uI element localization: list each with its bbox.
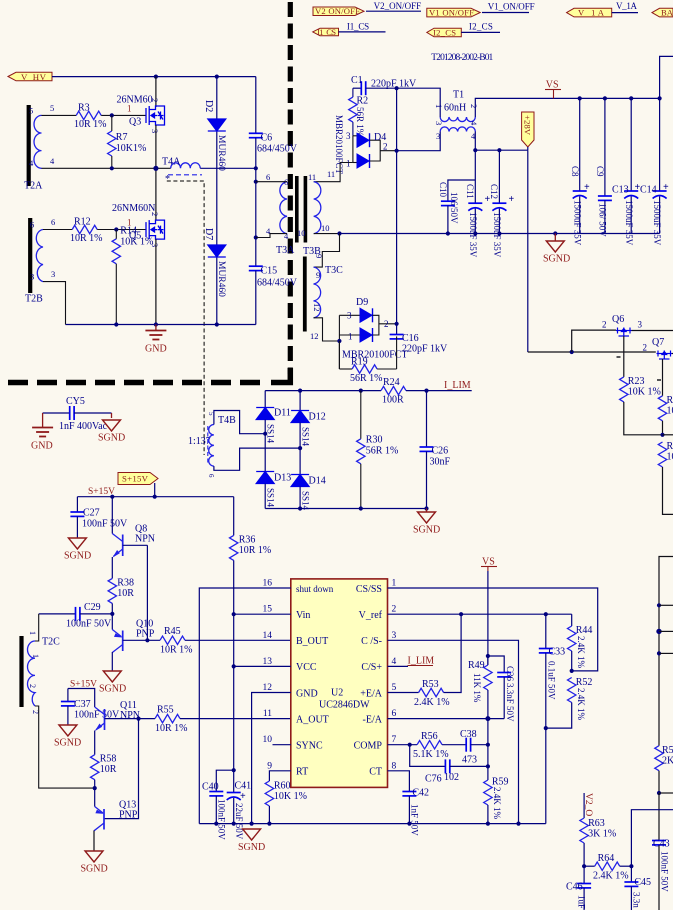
node C12 top: [497, 148, 501, 152]
svg-text:22uF 50V: 22uF 50V: [234, 803, 244, 840]
resistor R64 2.4K 1%: [584, 853, 631, 882]
svg-text:3: 3: [392, 631, 397, 641]
power port +28V: [522, 112, 534, 150]
node T4B/D11: [263, 432, 267, 436]
node D9 anodes: [337, 339, 341, 343]
port V_1A: [567, 8, 612, 18]
wire stub 3: [659, 652, 673, 654]
capacitor C11 1500uF 35V: [465, 150, 491, 258]
capacitor C1 220pF 1kV: [351, 75, 417, 95]
transformer T2C core: [19, 636, 23, 707]
svg-text:MUR460: MUR460: [216, 261, 226, 297]
capacitor C36 3.3nF 50V: [488, 656, 515, 722]
transformer T3B winding: [297, 169, 335, 257]
svg-text:C6: C6: [261, 133, 273, 144]
capacitor C37 100nF 50V: [61, 689, 120, 726]
port BAT (clipped at edge): [652, 8, 673, 18]
svg-text:C16: C16: [402, 333, 419, 344]
node -E/A: [485, 716, 490, 721]
svg-text:10: 10: [667, 406, 673, 417]
svg-text:R30: R30: [366, 435, 383, 446]
svg-text:10R: 10R: [117, 588, 134, 599]
svg-text:R57: R57: [662, 745, 673, 756]
node R3/R7: [110, 113, 114, 117]
svg-text:C26: C26: [432, 446, 449, 457]
svg-text:26NM60N: 26NM60N: [112, 203, 155, 214]
node C13 top: [629, 96, 633, 100]
svg-text:+E/A: +E/A: [360, 688, 383, 699]
svg-text:56R 1%: 56R 1%: [366, 446, 399, 457]
resistor R36: [230, 497, 272, 771]
wire pin4 stub + net label I_LIM: [388, 656, 435, 667]
svg-text:C10: C10: [438, 182, 448, 198]
resistor R7: [108, 115, 147, 168]
svg-text:10R 1%: 10R 1%: [155, 723, 188, 734]
node C6/T4A wire: [254, 166, 258, 170]
capacitor CY5 1nF 400Vac: [43, 396, 112, 432]
svg-text:T2C: T2C: [42, 637, 60, 648]
node C76/vertical: [486, 764, 490, 768]
node R30 top: [359, 389, 363, 393]
diode D12 SS14: [291, 391, 326, 449]
svg-text:R12: R12: [74, 217, 91, 228]
ground GND: [145, 325, 167, 355]
node R60 bottom: [267, 822, 271, 826]
svg-text:56R 1%: 56R 1%: [350, 373, 383, 384]
capacitor C40 100nF 50V: [202, 770, 234, 840]
svg-text:T4B: T4B: [218, 415, 236, 426]
svg-text:2: 2: [643, 343, 648, 353]
svg-text:1: 1: [392, 579, 397, 589]
transformer T3A/T3B core: [295, 176, 299, 243]
capacitor C26 30nF: [420, 391, 451, 509]
node R12/R14: [114, 227, 118, 231]
wire R3 to gate: [101, 114, 146, 116]
svg-text:R23: R23: [628, 376, 645, 387]
wire T3C pin12 to D9: [314, 318, 340, 341]
svg-text:4: 4: [392, 657, 397, 667]
svg-text:3.3n: 3.3n: [632, 892, 642, 908]
svg-text:C /S-: C /S-: [361, 636, 382, 647]
node C1/long vertical: [395, 86, 399, 90]
svg-text:PNP: PNP: [119, 810, 138, 821]
svg-text:10: 10: [667, 452, 673, 463]
node T3A pin4 tap: [254, 235, 258, 239]
node C42 bottom: [407, 822, 411, 826]
svg-text:100nF 50V: 100nF 50V: [82, 519, 128, 530]
resistor R60: [265, 781, 307, 824]
ground SGND (C37): [54, 725, 81, 749]
node R14/rail: [114, 322, 118, 326]
svg-text:7: 7: [392, 735, 397, 745]
ground SGND (I_LIM filter): [413, 509, 440, 536]
wire T3A pin6: [256, 181, 287, 183]
transformer T1: [434, 90, 479, 142]
capacitor C16 220pF 1kV: [390, 333, 448, 355]
svg-text:RT: RT: [296, 767, 308, 778]
wire right-edge bus: [659, 557, 673, 746]
svg-text:1500uF 35V: 1500uF 35V: [652, 200, 662, 246]
wire + net label I1_CS: [339, 22, 386, 32]
capacitor C43 100nF 50V: [652, 793, 670, 910]
port I2_CS: [427, 28, 462, 38]
capacitor C29 100nF 50V: [39, 602, 113, 630]
capacitor C46 1uF: [566, 866, 591, 910]
wire rail stub to edge: [660, 56, 673, 98]
port V2_ONOFF: [313, 6, 364, 16]
svg-text:B_OUT: B_OUT: [296, 636, 328, 647]
svg-text:102: 102: [444, 772, 459, 783]
power port S+15V: [118, 473, 158, 497]
svg-text:0.1uF 50V: 0.1uF 50V: [547, 661, 557, 700]
node Q5 source/rail: [154, 322, 158, 326]
ground SGND (Q10): [99, 671, 126, 695]
wire Q3 source to node: [155, 125, 157, 220]
svg-text:11: 11: [263, 709, 272, 719]
wire V2_O to R63: [583, 793, 585, 818]
svg-text:12: 12: [310, 331, 319, 341]
svg-text:100nF 50V: 100nF 50V: [217, 799, 227, 840]
resistor R24: [381, 377, 406, 406]
wire bottom SGND rail: [199, 823, 546, 825]
capacitor C41 22uF 50V: [227, 770, 251, 840]
svg-text:5: 5: [392, 683, 397, 693]
svg-text:R64: R64: [598, 853, 615, 864]
svg-text:10R 1%: 10R 1%: [239, 545, 272, 556]
node D7/rail: [215, 322, 219, 326]
diode D4 MBR20100FCT: [334, 115, 397, 175]
wire Q6 drain: [632, 330, 673, 332]
wire pin3 C/S-: [388, 640, 519, 823]
svg-text:10K1%: 10K1%: [116, 143, 147, 154]
node SGND tap: [553, 231, 557, 235]
resistor R38: [108, 578, 134, 614]
resistor R52: [546, 677, 593, 728]
svg-text:I1_CS: I1_CS: [347, 22, 369, 32]
resistor R45: [160, 626, 193, 656]
diode D14 SS14: [291, 448, 326, 510]
svg-text:R52: R52: [576, 677, 593, 688]
svg-text:2.4K 1%: 2.4K 1%: [576, 636, 586, 668]
svg-text:R19: R19: [351, 357, 368, 368]
svg-text:GND: GND: [296, 688, 318, 699]
svg-text:R24: R24: [383, 377, 400, 388]
node T4A/Q3/Q5: [153, 166, 158, 171]
svg-text:I_LIM: I_LIM: [444, 380, 471, 391]
svg-text:5: 5: [29, 106, 33, 116]
wire stub 2: [659, 630, 673, 632]
svg-text:106/ 50V: 106/ 50V: [598, 203, 608, 237]
svg-text:+: +: [240, 791, 246, 802]
svg-text:2: 2: [28, 684, 37, 688]
wire pin6 -E/A: [388, 718, 505, 720]
svg-text:C/S+: C/S+: [361, 662, 382, 673]
svg-text:C15: C15: [261, 266, 278, 277]
node C33 top: [544, 612, 548, 616]
svg-text:+: +: [509, 194, 515, 205]
transistor Q7: [643, 337, 673, 380]
svg-text:T4A: T4A: [162, 157, 181, 168]
node GND rail: [250, 822, 254, 826]
svg-text:I_LIM: I_LIM: [408, 656, 435, 667]
transistor Q6: [602, 314, 643, 357]
transformer T2B core: [28, 218, 32, 293]
port I1_CS: [313, 27, 339, 37]
svg-text:UC2846DW: UC2846DW: [319, 700, 370, 711]
wire T2C pin2 to R58: [35, 706, 95, 788]
net label VS (IC): [481, 557, 497, 572]
inductor T4A: [162, 157, 202, 186]
svg-text:R58: R58: [100, 754, 117, 765]
svg-text:56R 1%: 56R 1%: [355, 107, 365, 137]
svg-text:1uF: 1uF: [577, 895, 587, 909]
svg-text:V1_ON/OFF: V1_ON/OFF: [488, 1, 535, 11]
svg-text:106/50V: 106/50V: [449, 192, 459, 224]
wire T2B pin6 to R12: [43, 229, 72, 231]
svg-text:C12: C12: [489, 184, 499, 199]
svg-text:R56: R56: [421, 731, 438, 742]
resistor R23: [620, 376, 663, 435]
wire stub R57: [659, 792, 673, 794]
node Q8 base/R45: [145, 638, 149, 642]
node stub 2: [656, 629, 661, 634]
svg-text:2.4K 1%: 2.4K 1%: [414, 697, 450, 708]
svg-text:100nF 50V: 100nF 50V: [66, 619, 112, 630]
svg-text:5.1K 1%: 5.1K 1%: [413, 749, 449, 760]
wire S+15V rail: [77, 496, 233, 498]
svg-text:T3A: T3A: [276, 245, 295, 256]
wire VS vertical lower: [487, 719, 489, 780]
svg-text:C1: C1: [351, 75, 363, 86]
svg-text:T201208-2002-B01: T201208-2002-B01: [431, 53, 493, 63]
svg-text:1: 1: [346, 159, 351, 169]
resistor R14: [112, 226, 153, 325]
svg-text:D2: D2: [203, 100, 214, 112]
svg-text:5: 5: [50, 103, 54, 113]
resistor R12: [70, 217, 103, 245]
capacitor C14 1500uF 35V: [640, 98, 669, 245]
svg-text:1: 1: [28, 631, 37, 635]
node T3B pin10: [337, 231, 341, 235]
svg-text:SS14: SS14: [301, 491, 311, 511]
svg-text:-E/A: -E/A: [363, 714, 383, 725]
svg-text:2: 2: [384, 319, 389, 329]
net label VS: [545, 80, 561, 99]
wire Q3 drain: [155, 77, 157, 107]
svg-text:I2_CS: I2_CS: [433, 28, 456, 38]
resistor R56: [413, 731, 449, 760]
svg-text:Q3: Q3: [129, 117, 141, 128]
long vertical net wire: [396, 88, 398, 334]
svg-text:V_1A: V_1A: [616, 1, 638, 11]
resistor R25 (clipped): [658, 395, 673, 435]
svg-text:VCC: VCC: [296, 662, 317, 673]
svg-text:NPN: NPN: [135, 534, 155, 545]
svg-text:+: +: [663, 182, 669, 193]
resistor R63 3K 1%: [580, 818, 616, 866]
node Q11 base/R55: [136, 717, 140, 721]
svg-text:3: 3: [150, 129, 160, 133]
diode D9 MBR20100FCT: [339, 297, 407, 369]
wire R53 to V_ref: [444, 614, 462, 692]
svg-text:SGND: SGND: [98, 433, 125, 444]
svg-text:VS: VS: [546, 80, 559, 91]
svg-text:1: 1: [31, 654, 40, 658]
svg-text:GND: GND: [31, 441, 53, 452]
ground SGND (IC): [238, 829, 265, 853]
svg-text:U2: U2: [331, 688, 343, 699]
svg-text:100nF 50V: 100nF 50V: [660, 851, 670, 892]
wire +28V down to Q6/Q7: [527, 150, 529, 352]
svg-text:10K 1%: 10K 1%: [628, 387, 661, 398]
svg-text:11: 11: [308, 172, 316, 182]
svg-text:3: 3: [436, 131, 440, 141]
svg-text:3: 3: [346, 131, 351, 141]
node R57 bottom: [657, 791, 661, 795]
svg-text:9: 9: [316, 270, 320, 280]
resistor R2: [349, 88, 368, 137]
ground SGND (mid rail): [543, 234, 570, 265]
svg-text:C42: C42: [412, 788, 429, 799]
svg-text:T2A: T2A: [24, 181, 43, 192]
wire S+15V stub: [68, 689, 95, 708]
node D11 top rail: [298, 389, 302, 393]
svg-text:Vin: Vin: [296, 610, 310, 621]
node Vin: [232, 612, 236, 616]
svg-text:COMP: COMP: [354, 741, 383, 752]
svg-text:R59: R59: [492, 777, 509, 788]
node C9 top: [603, 96, 607, 100]
svg-text:SYNC: SYNC: [296, 741, 323, 752]
resistor R57 2K: [655, 745, 673, 793]
wire pin2 V_ref: [388, 613, 572, 615]
resistor R3: [74, 103, 107, 130]
svg-text:V_ref: V_ref: [359, 610, 383, 621]
svg-text:C13: C13: [612, 185, 629, 196]
wire pin8 CT to C42: [388, 771, 410, 792]
diode D11 SS14: [256, 391, 291, 444]
node stub 1: [657, 603, 661, 607]
wire T2A pin5 to R3: [42, 114, 77, 116]
svg-text:C40: C40: [202, 782, 219, 793]
wire + net label V_1A: [612, 1, 638, 13]
capacitor C38 473: [442, 729, 488, 766]
capacitor C45 3.3nF: [624, 866, 651, 910]
ground SGND (C27): [64, 538, 91, 562]
resistor R53: [414, 679, 450, 708]
svg-text:V1 ON/OFF: V1 ON/OFF: [429, 8, 474, 18]
svg-text:SGND: SGND: [54, 738, 81, 749]
svg-text:+28V: +28V: [523, 115, 533, 136]
wire R12 to gate: [97, 229, 146, 231]
node R23/R-chain: [660, 433, 664, 437]
wire + net label V1_ON/OFF: [482, 1, 535, 12]
svg-text:R60: R60: [274, 781, 291, 792]
svg-text:SS14: SS14: [266, 488, 276, 508]
svg-text:V2 ON/OFF: V2 ON/OFF: [315, 6, 360, 16]
svg-text:V_HV: V_HV: [21, 72, 47, 82]
svg-text:D7: D7: [203, 228, 214, 240]
svg-text:R2: R2: [357, 96, 369, 107]
svg-text:16: 16: [263, 579, 273, 589]
wire T2B pin3: [43, 282, 66, 325]
svg-text:R36: R36: [239, 535, 256, 546]
svg-text:C14: C14: [640, 185, 657, 196]
svg-text:C27: C27: [83, 508, 100, 519]
svg-text:C37: C37: [74, 699, 91, 710]
svg-text:C11: C11: [465, 184, 475, 199]
svg-text:60nH: 60nH: [444, 103, 466, 114]
node R64/C45: [629, 864, 633, 868]
svg-text:10: 10: [263, 735, 273, 745]
wire Q11/Q13 base tie: [104, 719, 139, 819]
wire R24 to I_LIM: [406, 390, 472, 392]
node C14 top: [658, 96, 662, 100]
capacitor C33 0.1uF 50V: [539, 614, 565, 823]
svg-text:CT: CT: [369, 767, 382, 778]
svg-text:D11: D11: [274, 408, 291, 419]
svg-text:3.3nF 50V: 3.3nF 50V: [505, 683, 515, 722]
transistor Q10 PNP: [112, 614, 160, 671]
svg-text:10R 1%: 10R 1%: [70, 233, 103, 244]
capacitor C10 106/50V: [438, 180, 475, 234]
wire T2C pin1 to C29: [35, 614, 39, 641]
node C38/vertical: [486, 743, 490, 747]
svg-text:10: 10: [297, 228, 306, 238]
svg-text:C29: C29: [84, 602, 101, 613]
svg-text:V 1A: V 1A: [578, 8, 605, 18]
svg-text:C9: C9: [595, 166, 605, 177]
svg-text:1: 1: [127, 104, 132, 114]
svg-text:2: 2: [150, 98, 160, 102]
svg-text:T3C: T3C: [325, 265, 343, 276]
wire pin12 GND: [252, 693, 291, 824]
svg-text:3: 3: [434, 121, 444, 125]
svg-text:MBR20100FCT: MBR20100FCT: [334, 115, 344, 175]
svg-text:SS14: SS14: [266, 424, 276, 444]
svg-text:2: 2: [469, 104, 479, 108]
node V_HV/D2: [215, 75, 219, 79]
resistor R19: [339, 336, 396, 384]
svg-text:100R: 100R: [382, 395, 404, 406]
wire + net label I2_CS: [461, 22, 500, 33]
capacitor C76 102: [410, 745, 488, 785]
resistor R55: [155, 705, 188, 735]
wire Q5 source to GND rail: [155, 239, 157, 325]
svg-text:15: 15: [263, 605, 273, 615]
capacitor C15 684/450V: [249, 168, 298, 324]
svg-text:SGND: SGND: [64, 551, 91, 562]
svg-text:R3: R3: [78, 103, 90, 114]
svg-text:R53: R53: [422, 679, 439, 690]
svg-text:1: 1: [434, 104, 444, 108]
wire +28V feed: [475, 149, 528, 151]
svg-text:PNP: PNP: [136, 629, 155, 640]
transistor Q3 26NM60: [117, 95, 165, 134]
wire mid ground rail: [340, 233, 660, 235]
svg-text:S+15V: S+15V: [122, 474, 149, 484]
svg-text:R63: R63: [588, 818, 605, 829]
svg-text:12: 12: [312, 303, 322, 312]
svg-text:Q6: Q6: [612, 314, 624, 325]
node R36/C40/C41: [232, 768, 236, 772]
svg-text:13: 13: [263, 657, 273, 667]
svg-text:+: +: [584, 182, 590, 193]
wire pin9 RT: [269, 771, 290, 781]
svg-text:10R 1%: 10R 1%: [160, 645, 193, 656]
svg-text:R49: R49: [468, 660, 485, 671]
transformer T3C core: [303, 257, 307, 332]
